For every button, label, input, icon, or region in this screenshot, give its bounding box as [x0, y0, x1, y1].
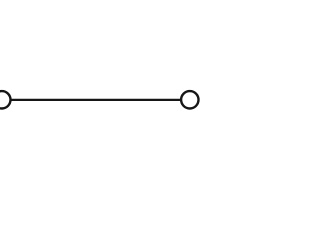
- wire: [11, 99, 182, 101]
- terminal circle right: [181, 91, 198, 108]
- terminal circle left (clipped at image edge): [0, 91, 11, 108]
